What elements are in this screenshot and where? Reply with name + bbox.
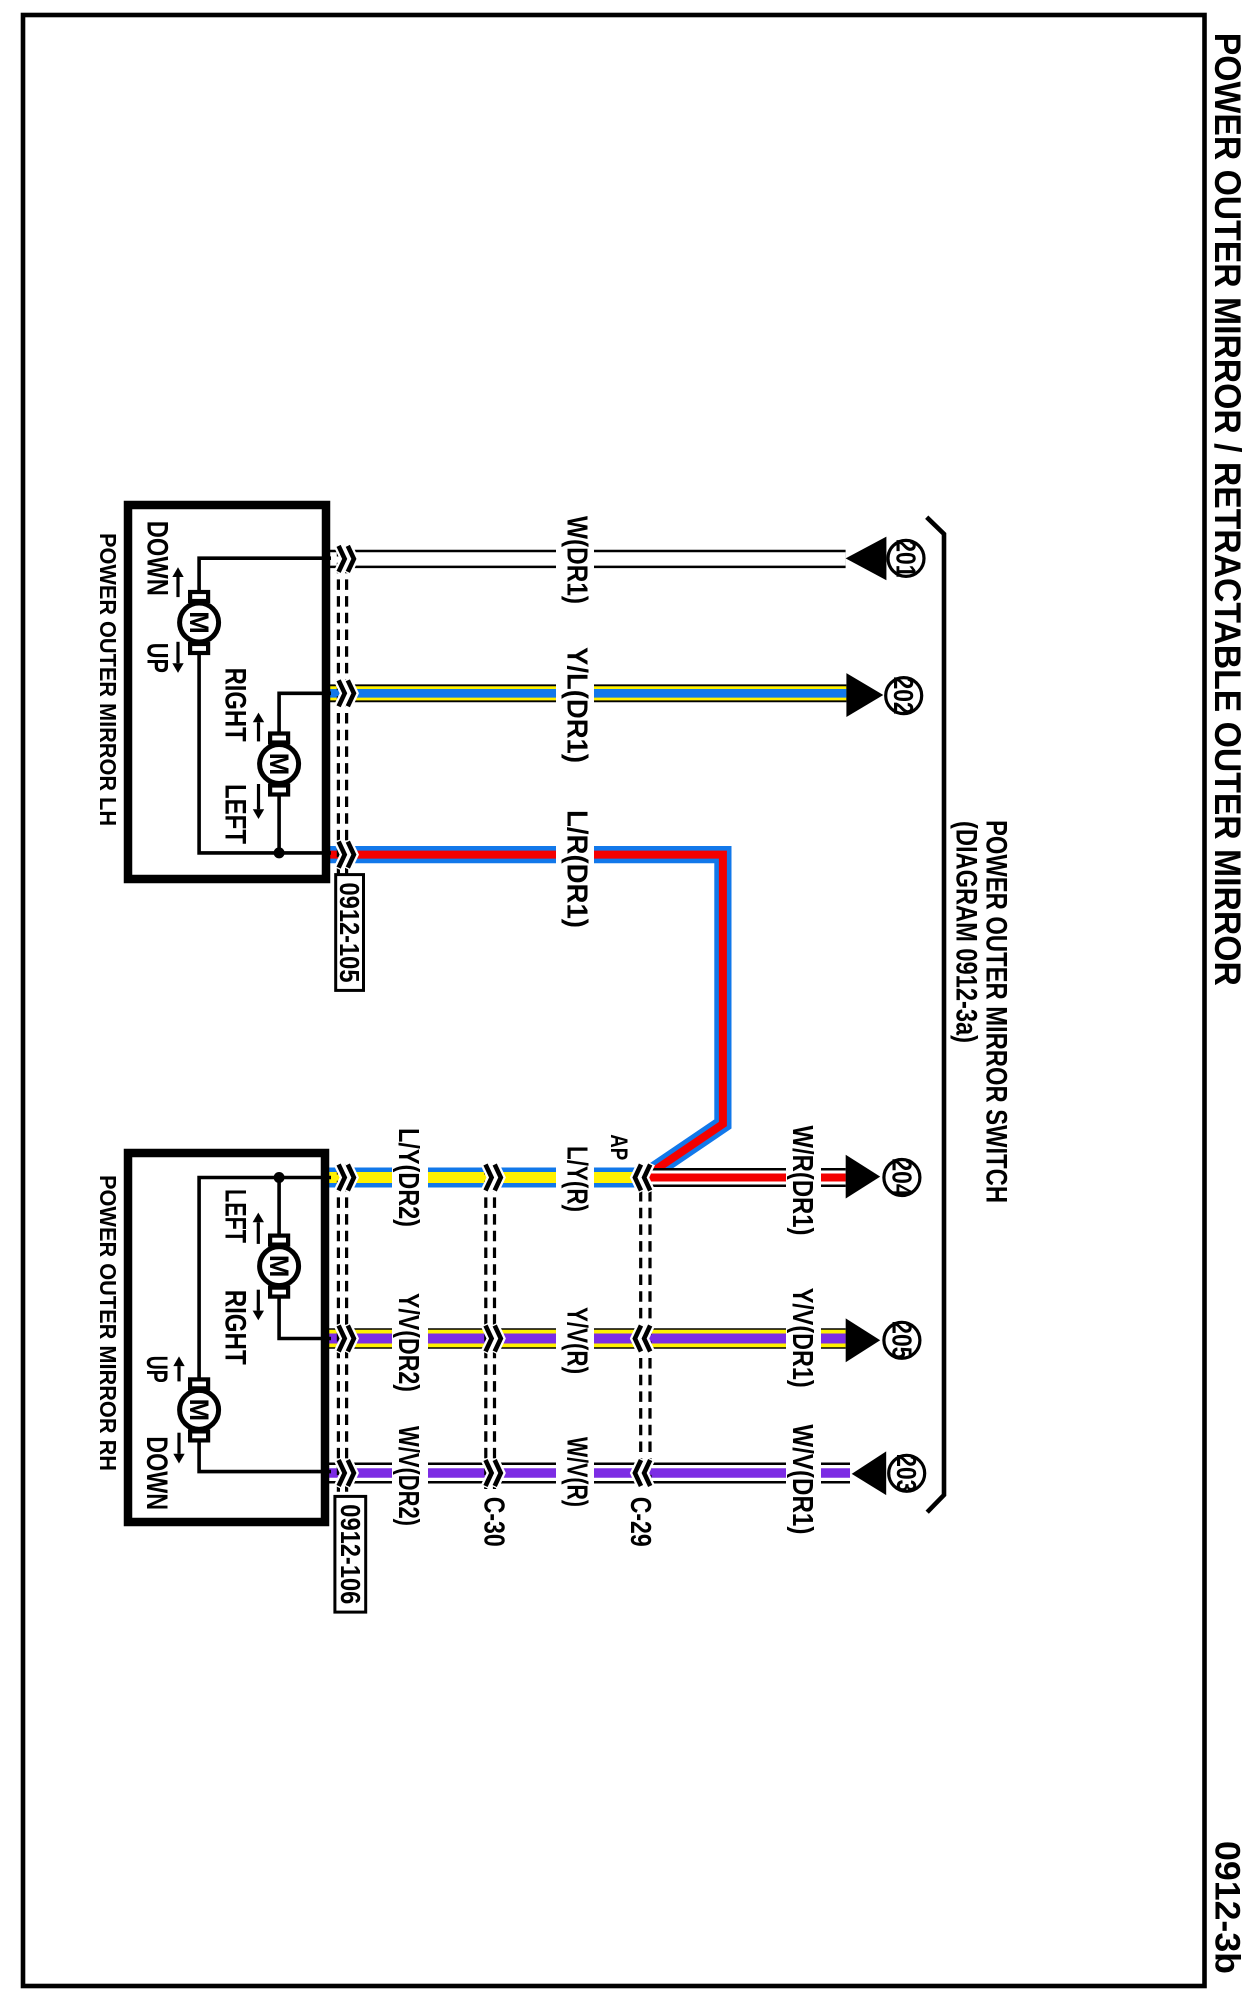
wire L/R(DR1) blue/red, LH box to AP junction [330,855,723,1178]
svg-text:Y/V(DR1): Y/V(DR1) [786,1288,818,1388]
chevron at AP junction [635,1163,651,1191]
svg-text:M: M [264,753,294,776]
junction node RH [274,1172,285,1183]
POWER OUTER MIRROR RH box [128,1153,325,1522]
svg-text:W/V(DR2): W/V(DR2) [392,1426,424,1526]
svg-text:C-30: C-30 [477,1497,509,1547]
svg-text:LEFT: LEFT [219,1189,252,1243]
svg-text:RIGHT: RIGHT [219,668,252,742]
arrow right (right direction RH) [253,1290,264,1321]
svg-text:POWER OUTER MIRROR RH: POWER OUTER MIRROR RH [95,1175,121,1471]
arrow right (up direction) [172,642,183,673]
svg-text:0912-106: 0912-106 [335,1504,366,1604]
svg-text:UP: UP [140,643,173,673]
chevron on L/Y(DR2) at 0912-106 [338,1163,354,1191]
svg-text:W/V(R): W/V(R) [561,1437,593,1507]
motor M2 (LH right/left) [260,734,299,795]
wire branch from motor M2 [277,795,281,853]
wire Y/L(DR1) yellow/blue, LH box to connector 202 [330,684,846,702]
svg-text:W/V(DR1): W/V(DR1) [786,1424,818,1534]
connector dashed line row at LH box edge (0912-105) [345,546,348,875]
svg-text:POWER OUTER MIRROR LH: POWER OUTER MIRROR LH [95,533,121,826]
connector box 0912-105 [334,875,365,991]
wire branch to motor M3 [277,1178,281,1238]
svg-text:204: 204 [886,1159,917,1197]
chevron on Y/V at C-30 [485,1324,501,1352]
arrow left (right direction) [253,713,264,742]
svg-text:L/Y(R): L/Y(R) [561,1146,593,1212]
svg-text:M: M [184,611,214,634]
arrow right (left direction) [253,784,264,819]
svg-text:C-29: C-29 [624,1497,656,1547]
svg-text:Y/L(DR1): Y/L(DR1) [561,647,593,763]
svg-text:203: 203 [891,1454,922,1492]
chevron on W(DR1) at 0912-105 [338,545,354,573]
chevron on Y/V at C-29 [635,1324,651,1352]
svg-text:0912-3b: 0912-3b [1207,1841,1246,1974]
svg-text:POWER OUTER MIRROR / RETRACTAB: POWER OUTER MIRROR / RETRACTABLE OUTER M… [1207,33,1248,986]
svg-text:Y/V(R): Y/V(R) [561,1307,593,1374]
connector dashed line row C-29 / AP [648,1191,651,1489]
arrow left (left direction RH) [253,1213,264,1244]
arrow left (down direction) [172,567,183,597]
wire from motor M4 to W/V(DR2) [199,1441,331,1472]
common wire to L/R(DR1) [199,653,331,853]
svg-text:M: M [184,1399,214,1422]
wire from motor M2 to Y/L(DR1) [279,693,331,733]
svg-text:LEFT: LEFT [219,784,252,844]
bracket (switch brace) [927,517,944,1512]
POWER OUTER MIRROR LH box [128,505,326,879]
chevron on W/V at C-30 [485,1459,501,1487]
svg-text:202: 202 [888,677,919,715]
svg-text:(DIAGRAM 0912-3a): (DIAGRAM 0912-3a) [950,821,983,1043]
svg-text:Y/V(DR2): Y/V(DR2) [392,1293,424,1392]
svg-text:L/R(DR1): L/R(DR1) [561,810,593,928]
wire L/Y(DR2)-L/Y(R) blue/yellow, RH box to AP junction [329,1168,638,1188]
junction node LH [274,847,285,858]
svg-text:DOWN: DOWN [140,1436,173,1510]
common wire from L/Y(DR2) [199,1178,331,1382]
connector dashed line row C-30 [493,1164,496,1489]
chevron on L/Y at C-30 [485,1163,501,1191]
svg-text:0912-105: 0912-105 [334,883,365,983]
label knockout gaps on wires [392,548,821,1485]
wire Y/V yellow/violet, RH box to connector 205 [329,1328,846,1348]
chevron on Y/L(DR1) at 0912-105 [338,679,354,707]
connector dashed line row at RH box edge (0912-106) [345,1164,348,1496]
arrow left (up direction RH) [173,1356,184,1381]
connector 204 [846,1155,920,1199]
svg-text:205: 205 [886,1321,917,1359]
motor M4 (RH up/down) [180,1379,219,1440]
arrow right (down direction RH) [173,1433,184,1464]
connector box 0912-106 [335,1496,366,1612]
connector 205 [846,1318,920,1362]
svg-text:RIGHT: RIGHT [219,1290,252,1365]
motor M1 (LH up/down) [180,592,219,653]
wire W/V white/violet, RH box to connector 203 [329,1463,850,1484]
connector 203 [852,1451,925,1495]
wire W(DR1) white wire, LH box to connector 201 [330,550,846,568]
svg-text:W(DR1): W(DR1) [561,516,593,604]
svg-text:W/R(DR1): W/R(DR1) [786,1126,818,1236]
connector 202 [846,673,921,717]
motor M3 (RH left/right) [260,1236,299,1297]
svg-text:UP: UP [140,1356,173,1383]
chevron on L/R(DR1) at 0912-105 [338,840,354,868]
svg-text:L/Y(DR2): L/Y(DR2) [392,1128,424,1227]
wire from motor M1 to W(DR1) [199,558,331,592]
connector 201 [846,537,924,581]
wire from motor M3 to Y/V(DR2) [279,1297,331,1339]
svg-text:DOWN: DOWN [140,521,173,596]
chevron on W/V at C-29 [635,1459,651,1487]
svg-text:POWER OUTER MIRROR SWITCH: POWER OUTER MIRROR SWITCH [979,820,1012,1203]
chevron on W/V(DR2) at 0912-106 [338,1459,354,1487]
svg-text:M: M [264,1255,294,1278]
svg-text:AP: AP [605,1134,632,1160]
wire W/R(DR1) white/red, AP junction to connector 204 [642,1168,846,1187]
svg-text:201: 201 [890,539,921,577]
chevron on Y/V(DR2) at 0912-106 [338,1324,354,1352]
